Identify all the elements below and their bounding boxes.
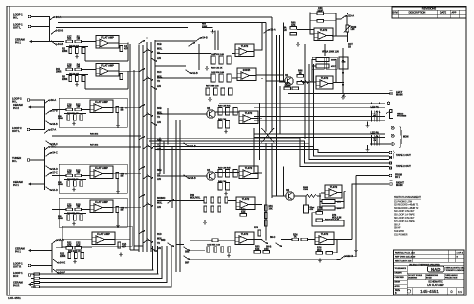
junction: [125, 207, 127, 209]
wire: [215, 111, 239, 113]
ground: [73, 260, 77, 264]
svg-text:R87 R88 C33: R87 R88 C33: [206, 86, 219, 88]
wire bus V9: [179, 120, 181, 272]
capacitor C48: [233, 170, 237, 178]
svg-text:SCHEMATIC: SCHEMATIC: [428, 281, 443, 284]
wire: [324, 44, 326, 56]
connector MON jack C: [391, 143, 394, 146]
switch S4-F: [53, 269, 66, 275]
switch S6-A: [44, 99, 57, 104]
svg-text:2u2: 2u2: [67, 172, 72, 175]
svg-text:-: -: [240, 49, 241, 52]
wire: [266, 80, 285, 82]
svg-text:-: -: [319, 33, 320, 36]
resistor R48: [204, 197, 207, 203]
wire arrowheads: [342, 60, 344, 87]
wire net HP3: [254, 116, 385, 118]
svg-text:10K: 10K: [255, 248, 260, 251]
wire: [52, 175, 66, 177]
wire feedback loop 3: [312, 213, 344, 226]
title block: [394, 250, 466, 295]
resistor R2: [69, 48, 72, 54]
ground: [366, 124, 370, 128]
wire: [118, 42, 128, 44]
svg-text:S4-C: S4-C: [52, 152, 58, 155]
svg-text:TL072: TL072: [241, 232, 249, 236]
wire bus B3: [31, 282, 34, 284]
wire net LEFT MAIN: [288, 93, 390, 95]
wire: [113, 173, 141, 175]
wire net TB4: [153, 147, 389, 156]
wire: [304, 81, 316, 83]
switch S4-A: [49, 16, 62, 21]
resistor R68: [316, 64, 329, 68]
connector ceramic phono 3: [28, 182, 33, 185]
switch S4-C: [45, 152, 58, 157]
svg-text:TD: TD: [157, 81, 160, 83]
junction: [44, 159, 46, 161]
resistor R50: [240, 209, 247, 216]
switch S4-A2: [188, 42, 194, 47]
wire feedback r2: [324, 20, 337, 22]
switch contact S1C: [138, 68, 144, 72]
connector J5 TUNER IN L: [27, 159, 30, 162]
svg-text:PROJECTION: PROJECTION: [445, 278, 458, 280]
wire fb loop q2: [320, 193, 322, 208]
switch contact LIN: [150, 121, 156, 126]
junction: [265, 115, 267, 117]
wire: [66, 46, 88, 48]
svg-text:TL072: TL072: [320, 28, 328, 32]
wire gnd hook: [367, 122, 369, 124]
resistor R53: [254, 246, 261, 253]
connector FROM PA: [389, 174, 392, 177]
wire fb rowb q1: [335, 65, 336, 67]
junction: [351, 183, 353, 185]
svg-text:S4B: S4B: [157, 139, 162, 142]
wire: [82, 247, 92, 249]
wire bus V10: [259, 103, 261, 160]
junction: [44, 183, 46, 185]
switch S10-A: [340, 15, 354, 20]
switch S3-D: [167, 242, 173, 247]
svg-text:IN MM: IN MM: [426, 278, 432, 280]
resistor R62: [317, 20, 324, 23]
svg-text:2u2: 2u2: [67, 206, 72, 209]
switch S7-C: [45, 172, 58, 177]
capacitor C9: [80, 181, 83, 187]
switch contact MOL: [146, 76, 152, 81]
connector J7 LOOP 1 IN R: [28, 274, 31, 277]
junction: [161, 278, 163, 280]
svg-text:LED PA: LED PA: [371, 132, 380, 135]
svg-text:-: -: [240, 237, 241, 240]
junction: [344, 191, 346, 193]
switch contact TD: [146, 174, 152, 179]
junction: [150, 107, 152, 109]
wire: [198, 44, 200, 70]
wire brace ceramic R: [32, 274, 37, 287]
wire: [127, 43, 129, 61]
resistor R25: [34, 277, 40, 279]
op-amp IC6: [239, 166, 258, 179]
resistor R49c: [211, 206, 214, 212]
junction: [371, 112, 373, 114]
junction: [259, 127, 261, 129]
wire: [281, 239, 292, 241]
wire: [118, 70, 141, 72]
op-amp IC3-A: [90, 200, 113, 213]
svg-text:PARTIAL P.C.B. 218: PARTIAL P.C.B. 218: [395, 251, 416, 254]
potentiometer VR1-A: [344, 25, 357, 33]
resistor R12: [66, 103, 73, 110]
capacitor C16: [228, 247, 231, 253]
svg-text:S4-B: S4-B: [202, 37, 208, 40]
wire: [347, 32, 349, 42]
svg-text:LIN: LIN: [157, 122, 161, 124]
switch S8-B: [183, 246, 189, 251]
svg-text:-: -: [244, 171, 245, 174]
svg-text:S9B: S9B: [185, 252, 190, 254]
resistor R109: [304, 205, 309, 213]
svg-text:S1B: S1B: [157, 44, 162, 46]
wire: [33, 106, 45, 108]
connector ceramic phono 2: [28, 105, 33, 108]
junction: [279, 93, 281, 95]
svg-text:REF DWG 145-4549: REF DWG 145-4549: [395, 256, 416, 258]
capacitor C42: [227, 74, 231, 82]
capacitor C15: [207, 247, 210, 253]
switch S4-G: [183, 142, 196, 148]
wire feedback loop 2: [324, 13, 337, 36]
wire net T2: [58, 21, 266, 23]
ground: [366, 148, 370, 152]
resistor R61: [290, 33, 297, 36]
switch S4-D: [45, 186, 58, 192]
resistor R19: [67, 215, 70, 221]
junction: [146, 103, 148, 105]
resistor R44: [218, 170, 222, 178]
op-amp IC8-A: [235, 232, 254, 245]
svg-text:100P: 100P: [317, 9, 323, 12]
wire: [85, 60, 128, 62]
junction: [167, 143, 169, 145]
wire: [280, 81, 286, 83]
LED D1: [373, 111, 379, 116]
junction: [129, 107, 131, 109]
wire bus V4: [150, 42, 152, 252]
wire bus B1b: [40, 246, 158, 274]
capacitor C43: [221, 88, 225, 95]
ground: [224, 130, 228, 134]
connector PRE OUT: [387, 102, 389, 104]
resistor R45: [226, 170, 230, 178]
switch S5-D: [51, 239, 64, 244]
resistor R5: [69, 76, 72, 82]
capacitor C72: [326, 252, 333, 255]
connector J10 HEADPHONES jack: [386, 110, 393, 119]
ground: [205, 66, 209, 70]
switch S4-E: [53, 259, 66, 265]
connector TAPE 1 OUT A: [389, 151, 392, 154]
junction: [157, 273, 159, 275]
svg-text:SIZE: SIZE: [395, 290, 401, 292]
connector TAPE 1 OUT B: [389, 156, 392, 159]
wire: [190, 239, 212, 241]
junction: [304, 29, 306, 31]
junction: [279, 133, 281, 135]
switch contact TD: [142, 77, 148, 81]
wire feedback r: [310, 20, 317, 22]
svg-text:47K: 47K: [67, 244, 72, 247]
switch S6-B: [45, 120, 58, 126]
ground: [341, 95, 345, 99]
capacitor C2: [82, 48, 85, 54]
switch contact LIN: [150, 247, 156, 252]
wire net T2 drop: [265, 22, 267, 131]
svg-text:MOL: MOL: [157, 203, 163, 205]
wire: [31, 26, 50, 28]
wire: [336, 18, 341, 20]
svg-text:47K: 47K: [331, 65, 335, 68]
svg-text:1K: 1K: [299, 72, 302, 75]
svg-text:S4 LOOP 1 IN-OUT: S4 LOOP 1 IN-OUT: [394, 211, 415, 213]
wire: [297, 29, 314, 31]
junction: [159, 137, 161, 139]
connector MON jack A: [391, 126, 394, 129]
capacitor C22: [75, 242, 82, 249]
wire net HP2: [254, 106, 385, 108]
switch contact LIN: [142, 145, 148, 149]
junction: [261, 78, 263, 80]
switch S6-G: [183, 174, 196, 180]
resistor R32: [219, 56, 223, 64]
wire net TB5: [155, 150, 389, 153]
junction: [133, 221, 135, 223]
svg-text:R33 C41 1K: R33 C41 1K: [211, 66, 223, 69]
svg-text:S3 RECORD +45dB T2: S3 RECORD +45dB T2: [394, 208, 419, 210]
svg-text:2u2: 2u2: [76, 244, 81, 247]
junction: [142, 173, 144, 175]
svg-text:-: -: [320, 237, 321, 240]
capacitor C6: [120, 74, 123, 80]
svg-text:TAPE 2 OUT: TAPE 2 OUT: [396, 164, 411, 168]
svg-text:S9-C: S9-C: [270, 237, 276, 239]
wire: [114, 239, 130, 241]
wire: [256, 74, 284, 76]
switch assignment table: [394, 196, 421, 236]
switch S4-B: [51, 41, 64, 47]
wire s10 gnd stub: [355, 246, 357, 248]
svg-text:S3D: S3D: [161, 240, 166, 242]
wire: [157, 77, 211, 79]
junction: [371, 103, 373, 105]
svg-text:S10-A: S10-A: [347, 15, 354, 18]
wire: [30, 129, 45, 131]
capacitor C43b: [229, 88, 233, 95]
wire: [304, 29, 306, 31]
wire module box stage 6: [62, 226, 132, 246]
svg-text:TL072: TL072: [330, 185, 338, 189]
svg-text:C50: C50: [264, 248, 269, 251]
svg-text:SYM: SYM: [392, 11, 397, 14]
wire: [304, 44, 306, 138]
op-amp IC4-A: [235, 44, 254, 57]
svg-text:L/R FLAT AMP: L/R FLAT AMP: [427, 284, 444, 287]
capacitor C70: [316, 207, 323, 214]
resistor R27: [34, 286, 40, 288]
connector J2 LOOP 1 OUT L: [28, 25, 31, 28]
wire: [64, 213, 86, 215]
svg-text:ENGR: ENGR: [395, 281, 401, 283]
svg-text:S8 LF: S8 LF: [394, 224, 401, 226]
wire net T1 drop: [271, 17, 273, 131]
svg-text:TD: TD: [157, 243, 160, 245]
svg-text:2u2: 2u2: [67, 106, 72, 109]
svg-text:1M: 1M: [77, 172, 80, 175]
switch contact S1B: [138, 40, 144, 45]
wire net R47: [52, 146, 141, 148]
junction: [163, 140, 165, 142]
svg-text:DESCRIPTION: DESCRIPTION: [409, 11, 426, 14]
wire net TB1: [147, 138, 389, 166]
switch contact S3C: [138, 194, 144, 198]
wire: [283, 22, 285, 81]
junction: [129, 207, 131, 209]
wire: [82, 109, 90, 111]
ground: [296, 42, 300, 46]
switch S9-B: [261, 239, 267, 244]
capacitor C12: [116, 207, 119, 213]
op-amp IC3-B: [92, 232, 115, 245]
wire bus V12: [276, 35, 278, 196]
wire bus V1: [138, 45, 140, 252]
op-amp IC2-A: [90, 100, 113, 113]
junction: [44, 129, 46, 131]
resistor R76: [316, 247, 323, 254]
svg-text:C15 R51 C16: C15 R51 C16: [207, 245, 221, 247]
switch S3-C: [167, 199, 173, 203]
svg-text:LIN: LIN: [351, 29, 355, 31]
wire: [33, 183, 45, 185]
junction: [283, 195, 285, 197]
switch S4-B2: [195, 37, 208, 42]
wire fb row q1: [312, 65, 316, 67]
op-amp IC7: [236, 197, 255, 210]
wire: [389, 162, 392, 164]
junction: [129, 173, 131, 175]
svg-text:S2 RECORD +45dB T1: S2 RECORD +45dB T1: [394, 205, 419, 207]
capacitor C45: [233, 108, 237, 116]
resistor R18: [66, 203, 73, 210]
svg-text:SWITCH ASSIGNMENT: SWITCH ASSIGNMENT: [394, 196, 421, 199]
junction: [336, 239, 338, 241]
wire: [113, 107, 141, 109]
ground: [72, 188, 76, 192]
junction: [146, 243, 148, 245]
switch S8-F: [183, 255, 189, 260]
switch contact LIN: [150, 57, 156, 62]
svg-text:R105C105: R105C105: [303, 187, 309, 191]
svg-text:0: 0: [450, 290, 452, 294]
svg-text:R46 2K2: R46 2K2: [90, 133, 99, 136]
switch contact S4B: [138, 136, 144, 140]
wire: [176, 244, 184, 246]
svg-text:TAPE 1 OUT: TAPE 1 OUT: [396, 153, 411, 157]
wire net T3: [56, 27, 188, 29]
wire: [64, 179, 86, 181]
resistor R22: [68, 253, 71, 259]
svg-text:47K: 47K: [291, 24, 296, 27]
svg-text:-: -: [244, 116, 245, 119]
wire: [82, 175, 90, 177]
svg-text:FLAT AMP: FLAT AMP: [97, 232, 110, 236]
wire: [163, 141, 165, 174]
svg-text:S7-B: S7-B: [52, 110, 58, 113]
capacitor C61: [312, 57, 324, 69]
wire: [31, 16, 50, 18]
wire: [272, 195, 286, 197]
junction: [355, 256, 357, 258]
resistor R41: [226, 108, 230, 116]
wire net T2 drop2: [265, 143, 267, 240]
svg-text:1:1: 1:1: [458, 290, 462, 294]
junction: [308, 143, 310, 145]
svg-text:R47 2K2: R47 2K2: [90, 144, 99, 147]
svg-text:TL072: TL072: [241, 44, 249, 48]
wire: [252, 204, 262, 206]
junction: [51, 250, 53, 252]
junction: [290, 93, 292, 95]
capacitor C50: [263, 248, 270, 253]
transistor Q4: [207, 169, 215, 180]
junction: [146, 37, 148, 39]
wire: [157, 53, 211, 55]
junction: [347, 13, 349, 15]
wire: [253, 128, 255, 173]
resistor R73: [316, 219, 323, 222]
wire: [389, 167, 392, 169]
op-amp IC1-B: [96, 64, 119, 77]
wire: [167, 108, 169, 144]
switch contact LIN: [142, 175, 148, 179]
ground: [72, 222, 76, 226]
connector J6 LOOP 1 OUT R: [28, 264, 31, 267]
junction: [138, 200, 140, 202]
monitor pin ticks: [372, 135, 380, 146]
wire net TB3: [151, 144, 389, 160]
capacitor C8: [116, 107, 119, 113]
capacitor C17: [66, 35, 73, 42]
op-amp IC9-B: [316, 76, 333, 89]
svg-text:S1-A: S1-A: [270, 29, 276, 32]
switch S2-B: [185, 69, 198, 75]
wire: [155, 40, 196, 42]
wire fb row1: [320, 201, 322, 203]
resistor R31: [211, 56, 215, 64]
junction: [154, 27, 156, 29]
junction: [342, 93, 344, 95]
wire gnd hook 2: [367, 145, 369, 148]
svg-text:VR1A 100K LIN: VR1A 100K LIN: [322, 51, 339, 54]
resistor R106 zigzag: [306, 195, 321, 198]
wire module box stage 4: [59, 164, 127, 193]
junction: [150, 65, 152, 67]
svg-text:TL072: TL072: [245, 111, 253, 115]
ground: [227, 254, 231, 258]
resistor R13: [67, 115, 70, 121]
wire: [228, 200, 236, 202]
